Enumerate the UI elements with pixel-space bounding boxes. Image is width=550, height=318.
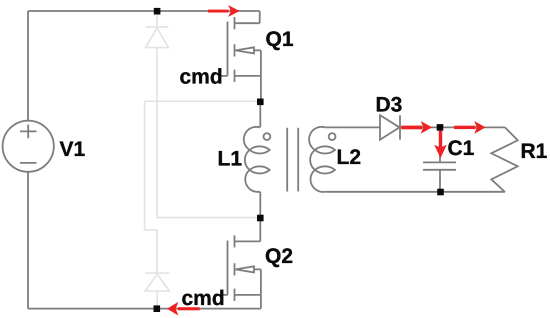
ghost clamp diode D2 (faded), anode down to bottom rail bbox=[145, 272, 170, 274]
ghost clamp diode D1 (faded), cathode up to top rail bbox=[156, 13, 158, 27]
junction top rail / D1 bbox=[154, 8, 161, 15]
junction primary bottom node bbox=[257, 215, 264, 222]
current arrow after D3 (red, right) bbox=[401, 121, 432, 134]
current arrow into C1 (red, down) bbox=[434, 131, 447, 158]
svg-text:D3: D3 bbox=[376, 93, 403, 116]
diode D3 (output rectifier) bbox=[380, 115, 400, 140]
wire Q2 source to bottom rail bbox=[260, 295, 262, 309]
svg-text:Q1: Q1 bbox=[266, 28, 294, 51]
transistor Q2 (NMOS, low side) bbox=[219, 218, 261, 301]
junction primary top node bbox=[257, 99, 264, 106]
resistor R1 (load) bbox=[491, 127, 517, 192]
transformer core bbox=[287, 128, 298, 192]
transistor Q1 (NMOS, high side) bbox=[219, 11, 261, 82]
svg-text:V1: V1 bbox=[60, 138, 86, 161]
wire (faded) D1 anode down to primary bottom node bbox=[156, 48, 158, 218]
current arrow toward R1 (red, right) bbox=[454, 121, 486, 134]
wire top rail V1+ to Q1 drain bbox=[28, 10, 260, 12]
voltage source V1 bbox=[3, 121, 54, 172]
svg-text:R1: R1 bbox=[521, 140, 548, 163]
wire bottom rail V1- to Q2 source bbox=[28, 308, 261, 310]
svg-text:cmd: cmd bbox=[182, 287, 225, 310]
junction output node bbox=[437, 124, 444, 131]
current arrow bottom rail (red, left) bbox=[167, 302, 200, 316]
inductor L2 (transformer secondary winding) bbox=[309, 127, 335, 192]
junction bottom rail / D2 bbox=[154, 305, 161, 312]
wire V1 bottom lead bbox=[27, 172, 29, 309]
wire secondary bottom return bbox=[325, 191, 505, 193]
capacitor C1 (output filter) bbox=[423, 127, 456, 192]
wire D3 cathode to output node bbox=[400, 126, 440, 128]
svg-text:cmd: cmd bbox=[180, 65, 223, 88]
svg-text:L1: L1 bbox=[218, 148, 243, 171]
current arrow top rail (red, right) bbox=[208, 5, 240, 17]
svg-text:L2: L2 bbox=[337, 146, 362, 169]
wire Q1 source to primary top node bbox=[260, 76, 262, 102]
svg-text:C1: C1 bbox=[448, 137, 475, 160]
junction secondary bottom node bbox=[437, 189, 444, 196]
wire (faded) primary top node to D2 cathode bbox=[145, 100, 261, 102]
wire output node to R1 top bbox=[440, 126, 505, 128]
wire L2 top to D3 anode bbox=[325, 126, 380, 128]
svg-text:Q2: Q2 bbox=[265, 245, 293, 268]
inductor L1 (transformer primary winding) bbox=[244, 102, 271, 218]
wire V1 top lead bbox=[27, 11, 29, 121]
